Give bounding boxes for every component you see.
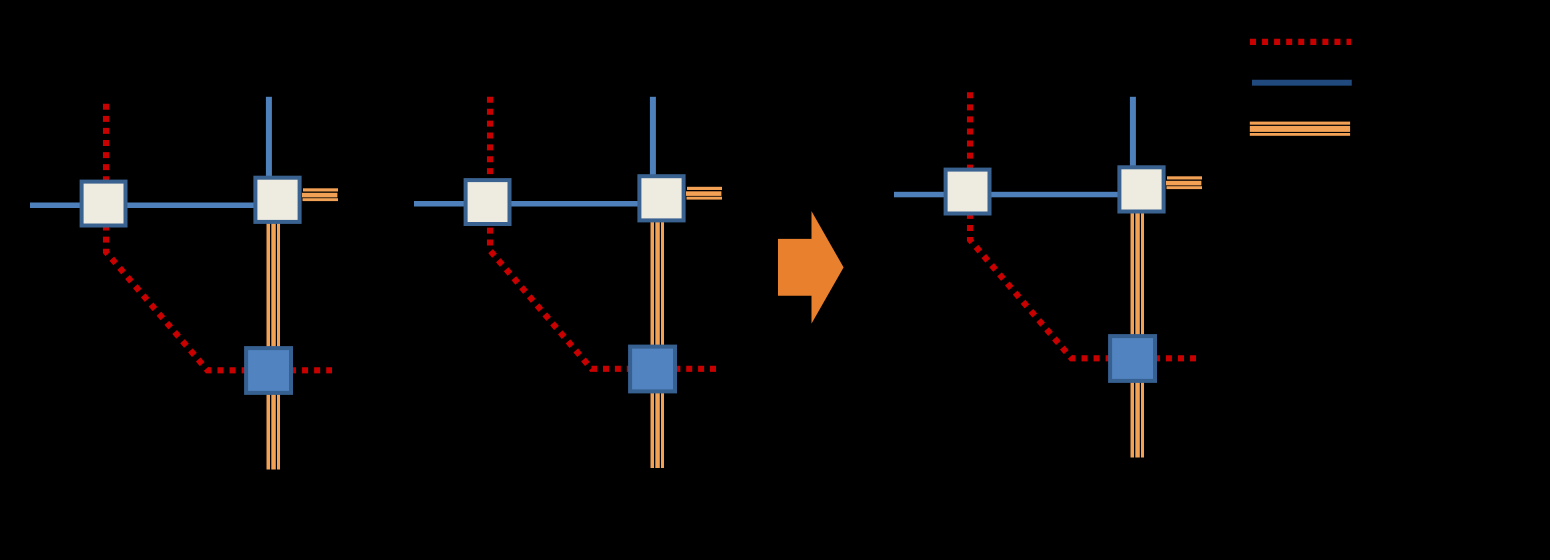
wire: orange triple line vertical, diagram 2 xyxy=(651,221,665,469)
wire: blue horizontal line, diagram 3 xyxy=(894,192,1122,198)
node: blue square C, diagram 2 xyxy=(630,347,675,392)
wire: orange triple line stub right of square B, diagram 1 xyxy=(302,188,338,201)
legend: orange triple line sample xyxy=(1250,122,1350,136)
wire: blue vertical line above square B, diagram 1 xyxy=(266,97,272,182)
wire: blue vertical line above square B, diagram 3 xyxy=(1130,97,1136,170)
node: cream square A, diagram 1 xyxy=(82,182,126,226)
wire: blue horizontal line, diagram 2 xyxy=(414,201,642,207)
wire: red dotted path, diagram 1 xyxy=(106,104,332,371)
legend: red dotted line sample xyxy=(1250,39,1351,45)
wire: blue vertical line above square B, diagram 2 xyxy=(650,97,656,181)
wire: orange triple line stub right of square B, diagram 2 xyxy=(686,187,722,200)
arrow: orange block arrow between diagram 2 and 3 xyxy=(778,211,844,324)
wire: orange triple line vertical, diagram 1 xyxy=(267,222,281,470)
node: cream square B, diagram 2 xyxy=(639,176,683,220)
wire: orange triple line stub right of square B, diagram 3 xyxy=(1166,176,1202,189)
legend: blue line sample xyxy=(1252,80,1352,86)
node: cream square A, diagram 3 xyxy=(946,170,990,214)
node: cream square B, diagram 3 xyxy=(1119,167,1163,211)
wire: red dotted path, diagram 2 xyxy=(490,97,716,369)
node: blue square C, diagram 1 xyxy=(246,348,291,393)
node: cream square A, diagram 2 xyxy=(466,180,510,224)
wire: red dotted path, diagram 3 xyxy=(970,92,1196,358)
node: blue square C, diagram 3 xyxy=(1110,336,1155,381)
node: cream square B, diagram 1 xyxy=(255,178,299,222)
wire: orange triple line vertical, diagram 3 xyxy=(1131,210,1145,458)
wire: blue horizontal line, diagram 1 xyxy=(30,203,258,209)
